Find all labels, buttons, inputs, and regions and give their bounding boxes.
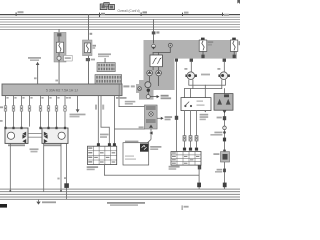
svg-text:Overall (Cont'd): Overall (Cont'd) [118, 9, 140, 13]
svg-text:5 30A M2 7.5A 1H 1J: 5 30A M2 7.5A 1H 1J [46, 89, 78, 93]
